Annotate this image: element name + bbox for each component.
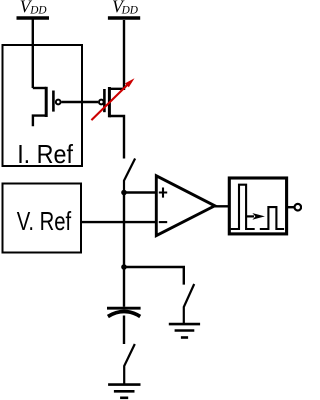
- svg-text:I. Ref: I. Ref: [17, 139, 73, 169]
- svg-text:V. Ref: V. Ref: [17, 206, 72, 236]
- svg-text:DD: DD: [29, 5, 46, 17]
- svg-text:DD: DD: [121, 5, 138, 17]
